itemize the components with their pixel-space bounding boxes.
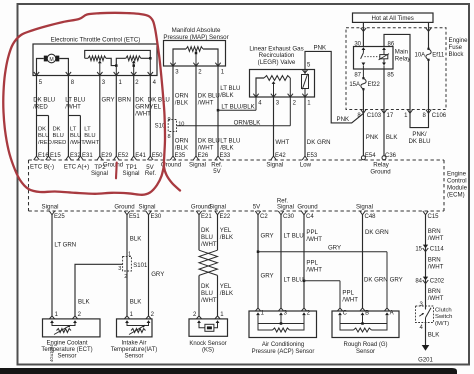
connector C106 (422, 110, 446, 120)
junction PPL/WHT branch (303, 280, 306, 283)
svg-text:E35: E35 (175, 153, 186, 159)
svg-text:LT BLU: LT BLU (284, 233, 304, 240)
ECM boundary top dashed line (29, 159, 445, 161)
connector E35 (170, 153, 186, 160)
svg-text:3: 3 (118, 266, 121, 272)
wire BLK to C36 (384, 113, 397, 155)
svg-text:BRN: BRN (428, 228, 441, 235)
wire relay 85 to 17 (383, 69, 385, 114)
svg-text:/WHT: /WHT (70, 140, 85, 146)
svg-text:BRN: BRN (118, 97, 131, 104)
IAT sensor box (117, 319, 153, 337)
wire pair labels LT BLU/WHT (70, 127, 100, 146)
motor M1 (44, 54, 60, 63)
connector E51 (114, 204, 140, 221)
wire ETC pin5 DK BLU/RED (33, 75, 55, 156)
junction ground node (114, 64, 119, 75)
svg-text:Block: Block (449, 51, 465, 58)
svg-text:DK BLU: DK BLU (148, 97, 170, 104)
svg-text:Engine Coolant: Engine Coolant (46, 340, 87, 346)
wire MAP pin3 ORN/BLK (173, 66, 188, 156)
connector C36 (382, 153, 397, 160)
wire ORN/BLK branch (177, 119, 291, 126)
G resistor (340, 324, 387, 333)
svg-text:Switch: Switch (435, 314, 452, 320)
ECT thermistor (52, 323, 75, 335)
wire pair labels DK BLU/RED (38, 127, 66, 146)
svg-text:Main: Main (395, 49, 408, 56)
svg-text:E53: E53 (307, 153, 318, 159)
svg-text:84: 84 (415, 278, 422, 284)
ECM boundary left dashed edge (28, 160, 30, 211)
svg-text:ORN: ORN (175, 92, 189, 99)
connector C48 (356, 204, 376, 221)
wire C4 PPL/WHT (301, 215, 322, 311)
svg-text:A: A (390, 311, 394, 317)
wire E21 DK BLU/WHT upper (199, 215, 217, 250)
svg-text:/BLK: /BLK (220, 290, 233, 297)
svg-text:/BLK: /BLK (175, 144, 188, 151)
wire ETC pin4 DK BLU/YEL (148, 75, 170, 156)
KS sensor box (189, 319, 228, 336)
pot supply bracket (85, 50, 151, 58)
svg-text:BLU: BLU (53, 133, 64, 139)
svg-text:/WHT: /WHT (65, 104, 81, 111)
IAT thermistor (127, 323, 149, 335)
svg-text:Hot at All Times: Hot at All Times (372, 15, 414, 22)
relay bottom arrows (0, 0, 1, 1)
ECT caption (41, 340, 92, 359)
svg-text:C106: C106 (432, 113, 447, 119)
main relay box (354, 47, 394, 70)
ETC box (33, 44, 157, 76)
MAP resistor (186, 47, 203, 52)
svg-text:Signal: Signal (91, 170, 108, 177)
svg-text:WHT: WHT (275, 139, 289, 146)
svg-text:Ground: Ground (114, 204, 134, 211)
wire bridge 86 feed (384, 34, 410, 113)
svg-text:Pressure (ACP) Sensor: Pressure (ACP) Sensor (252, 349, 315, 355)
connector C114 (415, 245, 444, 253)
svg-text:/BLK: /BLK (220, 92, 233, 99)
svg-text:/RED: /RED (53, 140, 67, 146)
svg-text:Electronic Throttle Control (E: Electronic Throttle Control (ETC) (51, 37, 141, 44)
connector C15 (423, 211, 439, 220)
wire PNK from LEGR pin5 (305, 44, 363, 123)
connectors E32 E31 (66, 153, 94, 160)
svg-text:PNK: PNK (366, 134, 379, 141)
wire PNK/DK BLU loop (408, 113, 430, 145)
svg-text:BLK: BLK (130, 298, 142, 305)
LEGR title (249, 45, 303, 66)
svg-text:Sensor: Sensor (57, 354, 76, 360)
svg-text:E42: E42 (275, 153, 286, 159)
clutch switch blade (419, 306, 431, 323)
svg-text:C114: C114 (430, 246, 445, 252)
label BRN/WHT 3 (428, 288, 444, 302)
svg-text:15A: 15A (349, 82, 360, 88)
svg-text:BLK: BLK (78, 298, 90, 305)
svg-text:DK: DK (201, 283, 209, 290)
svg-text:/RED: /RED (33, 104, 48, 111)
svg-text:DK: DK (38, 127, 46, 133)
wire C15 BRN/WHT (426, 215, 444, 309)
wire PPL/WHT branch to G sensor (304, 281, 358, 311)
svg-text:DK GRN: DK GRN (364, 277, 388, 284)
svg-text:17: 17 (387, 113, 394, 119)
svg-text:LT BLU: LT BLU (284, 277, 304, 284)
svg-text:DK: DK (201, 227, 209, 234)
IAT internal arrows (125, 320, 150, 323)
connector 1 (404, 110, 413, 120)
LEGR box (250, 70, 315, 98)
svg-text:GRY: GRY (261, 233, 274, 240)
KS piezo element (199, 323, 218, 331)
svg-text:/BLK: /BLK (220, 144, 233, 151)
clutch switch pin 4 (419, 325, 423, 331)
svg-text:LT BLU: LT BLU (220, 137, 240, 144)
svg-text:GRY: GRY (102, 97, 115, 104)
MAP internal wires (173, 49, 218, 66)
svg-text:DK BLU: DK BLU (33, 97, 55, 104)
svg-text:LT GRN: LT GRN (54, 241, 76, 248)
ACP internal arrows (256, 312, 306, 315)
svg-text:GRY: GRY (328, 245, 341, 252)
svg-text:Relay: Relay (373, 161, 390, 168)
svg-text:Signal: Signal (139, 204, 156, 211)
svg-text:Signal: Signal (189, 161, 206, 168)
wire ETC pin2 DK GRN/WHT (134, 75, 151, 156)
Engine Fuse Block label (449, 37, 469, 58)
svg-text:/WHT: /WHT (306, 267, 322, 274)
svg-text:ORN/BLK: ORN/BLK (234, 119, 261, 126)
svg-text:(KS): (KS) (202, 348, 214, 354)
svg-text:/BLK: /BLK (220, 234, 233, 241)
ECT sensor box (43, 319, 101, 337)
svg-text:YEL: YEL (220, 227, 232, 234)
svg-text:/WHT: /WHT (198, 99, 214, 106)
svg-text:(M/T): (M/T) (435, 321, 449, 327)
svg-text:BLU: BLU (201, 290, 213, 297)
ETC function labels (30, 161, 156, 177)
connector E33 (215, 153, 231, 160)
bottom black bar (0, 368, 457, 374)
connector C4 (297, 204, 317, 221)
LEGR solenoid coil (302, 70, 309, 97)
svg-text:86: 86 (388, 41, 395, 47)
wire LT BLU/BLK branch (217, 103, 256, 111)
svg-text:C103: C103 (367, 113, 382, 119)
svg-text:Signal: Signal (42, 204, 59, 211)
svg-text:PPL: PPL (306, 260, 318, 267)
ACP sensor box (249, 311, 317, 338)
TP2 wiper (97, 61, 102, 76)
svg-text:C: C (343, 311, 348, 317)
svg-text:15: 15 (415, 246, 422, 252)
ground G201 (418, 345, 433, 363)
ETC title (51, 37, 141, 44)
svg-text:Temperature(IAT): Temperature(IAT) (111, 347, 158, 353)
svg-text:/WHT: /WHT (428, 235, 444, 242)
connector E30 (139, 204, 162, 221)
svg-text:BRN: BRN (428, 288, 441, 295)
svg-text:E21: E21 (201, 214, 212, 220)
splice S10 (155, 117, 185, 140)
connector C202 (415, 277, 444, 285)
TP1 wiper (131, 61, 136, 76)
svg-text:Sensor: Sensor (356, 349, 375, 355)
MAP box (164, 41, 226, 67)
svg-text:DK GRN: DK GRN (365, 229, 389, 236)
svg-text:PPL: PPL (342, 289, 354, 296)
svg-text:S101: S101 (133, 263, 148, 269)
ECM label (447, 171, 468, 199)
wire E51 BLK (124, 215, 141, 319)
LEGR wiper (272, 81, 276, 97)
svg-text:E33: E33 (220, 153, 231, 159)
Engine Fuse Block dashed box (346, 28, 446, 110)
svg-text:/WHT: /WHT (428, 264, 444, 271)
svg-text:/WHT: /WHT (201, 241, 217, 248)
relay switch (361, 47, 366, 69)
fuse Ef22 15A (349, 69, 380, 90)
svg-text:C15: C15 (428, 214, 440, 220)
svg-text:DK BLU: DK BLU (408, 138, 430, 145)
MAP pin arrows (170, 63, 220, 66)
svg-text:E31: E31 (82, 153, 93, 159)
relay coil (365, 47, 390, 69)
svg-text:/WHT: /WHT (201, 297, 217, 304)
svg-text:ORN: ORN (175, 137, 189, 144)
svg-text:Knock Sensor: Knock Sensor (189, 341, 226, 347)
connector E41 (131, 153, 147, 160)
wire MAP pin2 DK BLU/WHT (196, 66, 220, 156)
svg-text:B: B (365, 311, 369, 317)
clutch switch pin 3 (419, 302, 423, 308)
red annotation loop (3, 13, 180, 195)
svg-text:BLK: BLK (386, 134, 398, 141)
wire Ef22 to C103 (362, 89, 364, 113)
wire BLK to ground (426, 323, 440, 346)
svg-text:C2: C2 (260, 214, 268, 220)
svg-text:C48: C48 (365, 214, 377, 220)
svg-text:BLK: BLK (428, 332, 440, 339)
svg-text:E15: E15 (50, 153, 61, 159)
svg-text:Signal: Signal (277, 204, 294, 211)
svg-text:LT: LT (70, 127, 77, 133)
svg-text:LT BLU: LT BLU (65, 97, 85, 104)
svg-text:Air Conditioning: Air Conditioning (262, 342, 304, 348)
labels ORN/BLK lower (175, 137, 189, 151)
wire PNK to E54 (363, 113, 378, 155)
wire E30 GRY (146, 215, 165, 319)
connectors E16 E15 (34, 153, 62, 160)
svg-text:/WHT: /WHT (342, 296, 358, 303)
svg-text:BLU: BLU (70, 133, 81, 139)
svg-text:Pressure (MAP) Sensor: Pressure (MAP) Sensor (163, 34, 228, 41)
svg-text:C4: C4 (306, 214, 314, 220)
ACP resistor (258, 324, 304, 333)
svg-text:Ef22: Ef22 (368, 82, 381, 88)
connector E29 (97, 153, 113, 160)
MAP function labels (161, 161, 223, 175)
svg-text:BLU: BLU (201, 234, 213, 241)
ECM boundary right dashed edge (443, 160, 445, 211)
svg-text:Rough Road (G): Rough Road (G) (343, 342, 387, 348)
MAP title (163, 27, 228, 41)
svg-text:C36: C36 (385, 153, 397, 159)
pot interconnect wire (106, 58, 126, 65)
svg-text:Ground: Ground (297, 204, 317, 211)
connector E52 (114, 153, 130, 160)
KS internal arrows (197, 320, 219, 323)
relay ground label (370, 161, 390, 175)
splice S101 (118, 252, 148, 280)
wire KS pin2 DK BLU/WHT lower (196, 275, 217, 319)
wire E25 LT GRN (49, 215, 76, 319)
ECM boundary bottom dashed line (29, 210, 445, 212)
G sensor box (332, 311, 399, 338)
svg-text:/RED: /RED (38, 140, 52, 146)
svg-text:DK: DK (53, 127, 61, 133)
svg-text:Engine: Engine (447, 171, 467, 178)
svg-text:Intake Air: Intake Air (121, 340, 146, 346)
motor lead wires (34, 59, 71, 76)
wire C30 LT BLU (278, 215, 303, 311)
svg-text:E52: E52 (118, 153, 129, 159)
svg-text:E16: E16 (38, 153, 49, 159)
connector E25 (42, 204, 66, 221)
svg-text:5V: 5V (213, 168, 221, 175)
connector E50 (148, 153, 164, 160)
svg-text:PNK: PNK (314, 44, 327, 51)
svg-text:E51: E51 (129, 214, 140, 220)
ETC pin numbers (39, 80, 157, 86)
svg-text:DK BLU: DK BLU (198, 137, 220, 144)
svg-text:M: M (49, 57, 53, 63)
G pin letters (343, 311, 394, 317)
connector C2 (253, 204, 269, 221)
svg-text:85: 85 (387, 73, 394, 79)
svg-text:ETC A(+): ETC A(+) (64, 164, 89, 171)
svg-text:/WHT: /WHT (306, 236, 322, 243)
svg-text:/YEL: /YEL (148, 104, 162, 111)
KS pin numbers (193, 312, 224, 318)
LEGR resistor (264, 76, 290, 81)
svg-text:Signal: Signal (356, 204, 373, 211)
wire C48 DK GRN (360, 215, 389, 311)
svg-text:/WHT: /WHT (428, 295, 444, 302)
connector E53 (302, 153, 318, 160)
connector E22 (209, 204, 231, 221)
svg-text:E50: E50 (152, 153, 163, 159)
label BRN/WHT 2 (428, 257, 444, 271)
svg-text:8: 8 (167, 134, 170, 140)
svg-text:PNK/: PNK/ (412, 131, 427, 138)
wire LEGR pin2 stub (289, 97, 291, 126)
svg-text:Manifold Absolute: Manifold Absolute (172, 27, 221, 34)
svg-text:LT: LT (84, 127, 91, 133)
svg-text:10A: 10A (415, 52, 426, 58)
svg-text:Relay: Relay (395, 56, 412, 63)
resistor TP2 pot (85, 56, 106, 61)
connector C103 (357, 110, 381, 120)
svg-text:LT BLU/BLK: LT BLU/BLK (221, 103, 254, 110)
LEGR pin numbers (258, 62, 311, 106)
twisted pair (199, 250, 218, 275)
svg-text:(ECM): (ECM) (447, 192, 465, 199)
svg-text:DK BLU: DK BLU (198, 92, 220, 99)
svg-text:GRY: GRY (151, 271, 164, 278)
wire E22 YEL/BLK upper (218, 215, 234, 250)
KS caption (189, 341, 226, 354)
wire LEGR pin4 stub (255, 97, 257, 110)
svg-text:Signal: Signal (209, 204, 226, 211)
svg-text:Temperature (ECT): Temperature (ECT) (41, 347, 92, 353)
svg-text:BLU: BLU (84, 133, 95, 139)
svg-text:/WHT: /WHT (135, 111, 151, 118)
G internal bracket (340, 315, 387, 325)
svg-text:ETC B(-): ETC B(-) (30, 164, 54, 171)
svg-text:1: 1 (128, 252, 131, 258)
LEGR function labels (266, 161, 311, 168)
IAT caption (111, 340, 158, 359)
ECT internal arrows (50, 320, 77, 323)
svg-text:Engine: Engine (449, 37, 469, 44)
svg-text:5V: 5V (253, 204, 261, 211)
clutch switch box (416, 306, 434, 323)
svg-text:Sensor: Sensor (124, 354, 143, 360)
svg-text:87: 87 (354, 73, 361, 79)
svg-text:DK GRN: DK GRN (307, 139, 331, 146)
svg-text:Low: Low (300, 161, 312, 168)
wire LEGR pin3 WHT (274, 97, 290, 156)
LEGR pin arrows (253, 94, 307, 97)
svg-text:C30: C30 (283, 214, 295, 220)
clutch switch label (435, 307, 452, 327)
svg-text:PPL: PPL (306, 229, 318, 236)
svg-text:Signal: Signal (123, 170, 140, 177)
svg-text:/BLK: /BLK (175, 99, 188, 106)
svg-text:Clutch: Clutch (435, 307, 452, 313)
svg-text:/WHT: /WHT (198, 144, 214, 151)
connector E54 (361, 153, 376, 160)
wire LEGR pin1 DK GRN (305, 97, 331, 156)
wire hot to relay 30 (354, 22, 366, 47)
MAP pin numbers (175, 70, 225, 76)
svg-text:BLK: BLK (130, 235, 142, 242)
Hot at All Times box (353, 13, 434, 22)
G caption (343, 342, 387, 355)
connector E42 (271, 153, 287, 160)
wire MAP pin1 LT BLU/BLK (218, 66, 240, 156)
svg-text:C202: C202 (430, 278, 445, 284)
wire hot to fuse Ef11 (426, 22, 431, 48)
svg-text:PNK: PNK (337, 116, 350, 123)
wire KS pin1 YEL/BLK lower (215, 275, 233, 319)
svg-text:Module: Module (447, 185, 468, 192)
svg-text:E25: E25 (54, 214, 65, 220)
svg-text:E54: E54 (365, 153, 376, 159)
svg-text:Ref.: Ref. (145, 170, 156, 177)
G internal arrows (338, 312, 389, 315)
main relay label (395, 49, 412, 63)
svg-text:/WHT: /WHT (84, 140, 99, 146)
wire ETC pin3 GRY (100, 75, 115, 156)
svg-text:Ground: Ground (370, 168, 390, 175)
connector C30 (277, 197, 295, 220)
svg-text:GRY: GRY (390, 277, 403, 284)
